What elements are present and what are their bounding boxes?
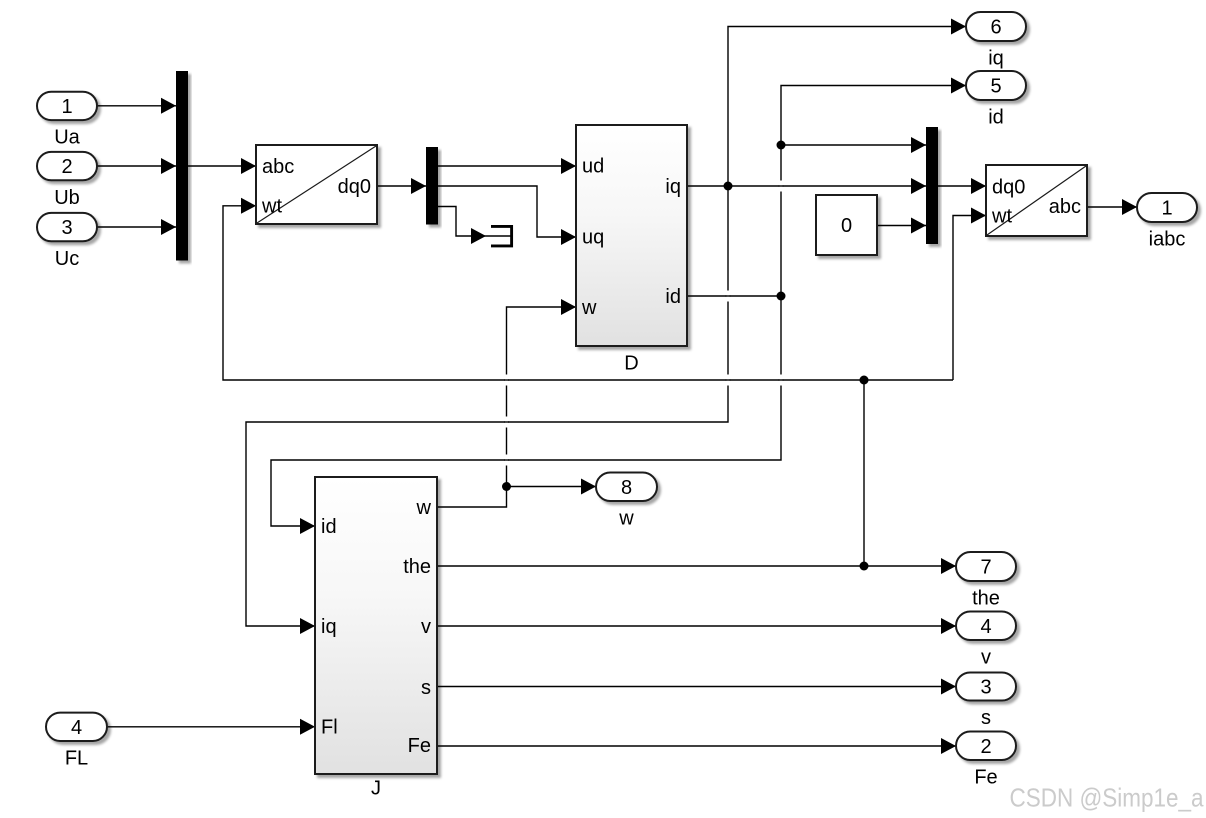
svg-text:v: v (421, 616, 431, 638)
svg-text:iq: iq (665, 176, 681, 198)
svg-text:dq0: dq0 (992, 177, 1025, 199)
svg-text:8: 8 (621, 477, 632, 499)
svg-text:the: the (403, 556, 431, 578)
svg-text:s: s (421, 677, 431, 699)
svg-text:4: 4 (71, 717, 82, 739)
svg-text:abc: abc (262, 156, 294, 178)
svg-text:FL: FL (65, 748, 88, 770)
svg-text:Fe: Fe (974, 767, 997, 789)
svg-text:abc: abc (1049, 196, 1081, 218)
svg-text:5: 5 (990, 76, 1001, 98)
svg-text:w: w (618, 508, 634, 530)
svg-text:2: 2 (980, 736, 991, 758)
svg-text:J: J (371, 778, 381, 800)
svg-text:2: 2 (61, 156, 72, 178)
svg-text:1: 1 (61, 96, 72, 118)
svg-text:id: id (665, 286, 681, 308)
svg-text:3: 3 (61, 217, 72, 239)
svg-text:iq: iq (321, 616, 337, 638)
svg-text:6: 6 (990, 17, 1001, 39)
svg-text:id: id (321, 516, 337, 538)
svg-text:uq: uq (582, 227, 604, 249)
svg-text:v: v (981, 647, 991, 669)
svg-text:7: 7 (980, 557, 991, 579)
svg-text:the: the (972, 588, 1000, 610)
svg-text:id: id (988, 107, 1004, 129)
svg-text:iq: iq (988, 48, 1004, 70)
svg-text:w: w (416, 497, 432, 519)
svg-text:3: 3 (980, 677, 991, 699)
svg-text:iabc: iabc (1149, 229, 1186, 251)
svg-text:Fe: Fe (408, 735, 431, 757)
svg-text:wt: wt (991, 206, 1012, 228)
svg-text:ud: ud (582, 156, 604, 178)
svg-text:Fl: Fl (321, 717, 338, 739)
svg-text:0: 0 (841, 215, 852, 237)
svg-text:D: D (624, 353, 638, 375)
svg-text:s: s (981, 707, 991, 729)
svg-text:CSDN @Simp1e_a: CSDN @Simp1e_a (1010, 783, 1204, 813)
svg-text:wt: wt (261, 196, 282, 218)
svg-text:Ub: Ub (54, 187, 80, 209)
svg-text:dq0: dq0 (338, 176, 371, 198)
svg-text:1: 1 (1161, 198, 1172, 220)
svg-text:4: 4 (980, 616, 991, 638)
svg-text:Ua: Ua (54, 127, 80, 149)
svg-text:w: w (581, 297, 597, 319)
svg-text:Uc: Uc (55, 248, 79, 270)
